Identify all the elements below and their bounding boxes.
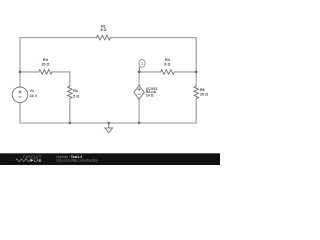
svg-text:R2: R2 xyxy=(73,89,78,93)
svg-text:20 Ω: 20 Ω xyxy=(200,92,208,96)
svg-text:8 Ω: 8 Ω xyxy=(164,63,170,67)
svg-text:http://circuitlab.com/c6ad3kp: http://circuitlab.com/c6ad3kp xyxy=(56,159,98,163)
svg-text:V1: V1 xyxy=(30,89,35,93)
svg-text:8 Ω: 8 Ω xyxy=(100,28,106,32)
svg-text:5 Ω: 5 Ω xyxy=(73,94,79,98)
svg-text:10 Ω: 10 Ω xyxy=(146,93,154,97)
svg-text:24 V: 24 V xyxy=(30,94,38,98)
svg-text:20 Ω: 20 Ω xyxy=(41,63,49,67)
svg-text:LAB: LAB xyxy=(34,158,41,163)
